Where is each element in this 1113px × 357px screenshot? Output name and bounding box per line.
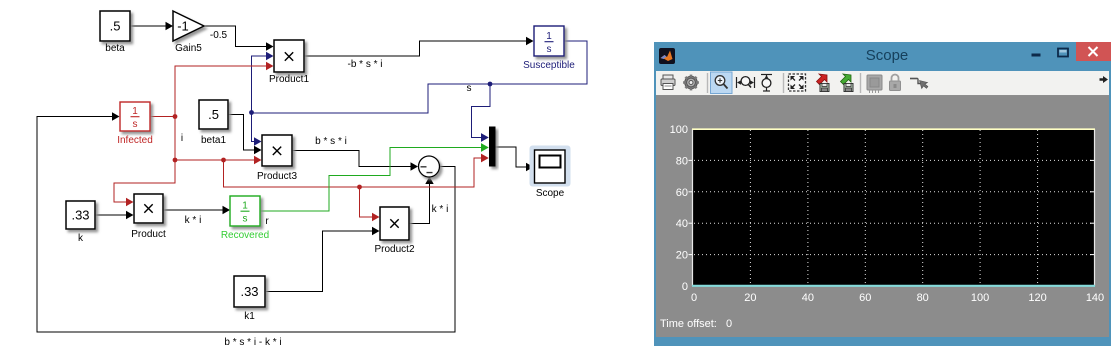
svg-text:s: s xyxy=(467,83,472,94)
svg-text:140: 140 xyxy=(1086,292,1104,304)
svg-text:Product3: Product3 xyxy=(257,171,297,182)
svg-text:Product: Product xyxy=(131,229,166,240)
svg-text:80: 80 xyxy=(917,292,929,304)
svg-text:60: 60 xyxy=(676,187,688,199)
svg-text:20: 20 xyxy=(744,292,756,304)
svg-text:Recovered: Recovered xyxy=(221,230,269,241)
svg-text:100: 100 xyxy=(670,124,688,136)
svg-text:.33: .33 xyxy=(71,208,89,223)
svg-text:-0.5: -0.5 xyxy=(210,30,228,41)
svg-text:120: 120 xyxy=(1028,292,1046,304)
svg-text:1: 1 xyxy=(242,201,248,212)
svg-text:i: i xyxy=(181,133,183,144)
svg-text:40: 40 xyxy=(802,292,814,304)
svg-text:40: 40 xyxy=(676,218,688,230)
svg-text:k * i: k * i xyxy=(185,215,202,226)
svg-text:beta: beta xyxy=(105,43,125,54)
svg-text:k1: k1 xyxy=(244,311,255,322)
svg-text:.5: .5 xyxy=(110,19,121,34)
svg-text:Susceptible: Susceptible xyxy=(523,60,575,71)
svg-text:s: s xyxy=(243,214,248,225)
svg-text:Infected: Infected xyxy=(117,135,153,146)
svg-text:.5: .5 xyxy=(208,107,219,122)
svg-text:0: 0 xyxy=(682,281,688,293)
svg-text:80: 80 xyxy=(676,155,688,167)
svg-text:k * i: k * i xyxy=(432,204,449,215)
svg-text:s: s xyxy=(133,119,138,130)
svg-text:20: 20 xyxy=(676,250,688,262)
svg-text:b * s * i: b * s * i xyxy=(315,136,347,147)
svg-text:k: k xyxy=(78,233,84,244)
svg-text:s: s xyxy=(547,44,552,55)
svg-text:-1: -1 xyxy=(177,19,189,34)
svg-text:Gain5: Gain5 xyxy=(175,43,202,54)
svg-text:beta1: beta1 xyxy=(201,135,226,146)
svg-text:.33: .33 xyxy=(240,284,258,299)
svg-text:100: 100 xyxy=(971,292,989,304)
svg-text:60: 60 xyxy=(859,292,871,304)
svg-text:1: 1 xyxy=(546,31,552,42)
svg-text:-b * s * i: -b * s * i xyxy=(347,59,382,70)
svg-text:Product1: Product1 xyxy=(269,74,309,85)
svg-text:Product2: Product2 xyxy=(374,244,414,255)
svg-text:Scope: Scope xyxy=(536,188,565,199)
svg-text:r: r xyxy=(265,216,269,227)
svg-text:0: 0 xyxy=(691,292,697,304)
svg-text:1: 1 xyxy=(132,106,138,117)
svg-text:b * s * i - k * i: b * s * i - k * i xyxy=(224,337,281,348)
